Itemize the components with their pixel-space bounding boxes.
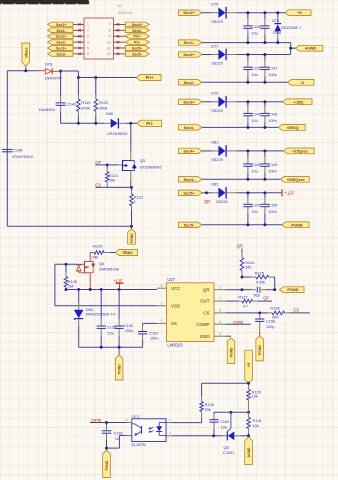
- port Sec1- (transformer left): [48, 28, 74, 33]
- svg-text:QR: QR: [204, 199, 210, 204]
- power +12F (VCC): [113, 278, 123, 289]
- svg-text:Sec3-: Sec3-: [56, 52, 66, 56]
- capacitor C155 100n: [260, 193, 277, 225]
- svg-text:+15Qsec: +15Qsec: [292, 149, 308, 153]
- svg-text:C136: C136: [251, 25, 260, 29]
- port Sec3+ (transformer left): [48, 46, 74, 51]
- junction: [118, 346, 121, 349]
- svg-text:VCC: VCC: [171, 286, 180, 291]
- diode D78 1N4007W: [39, 61, 62, 80]
- resistor R131 10k: [247, 412, 262, 436]
- svg-text:10k: 10k: [252, 394, 258, 399]
- resistor R125 9.35k: [242, 270, 275, 289]
- svg-text:200k: 200k: [81, 105, 89, 110]
- svg-text:100n: 100n: [268, 210, 276, 214]
- junction: [263, 11, 266, 14]
- svg-text:DMD6515E: DMD6515E: [99, 266, 120, 271]
- wire Sec3- rail: [202, 126, 278, 128]
- svg-text:C148: C148: [251, 163, 260, 167]
- wire COMP pin: [225, 323, 250, 325]
- resistor R127 4.7: [225, 295, 272, 309]
- wire PGND rail (mid): [79, 346, 143, 348]
- capacitor C145 100n: [260, 102, 277, 128]
- port Sec3+: [178, 99, 202, 104]
- wire Sec5- rail: [202, 224, 282, 226]
- wire comp row: [90, 422, 132, 424]
- svg-text:200k: 200k: [99, 105, 107, 110]
- port GNDQsec: [280, 176, 309, 182]
- junction: [246, 149, 249, 152]
- svg-text:100n: 100n: [268, 119, 276, 123]
- svg-text:D63: D63: [86, 307, 93, 312]
- svg-text:Sec3+: Sec3+: [183, 99, 195, 104]
- port PGND (QR): [279, 287, 304, 293]
- capacitor C134: [260, 13, 269, 43]
- svg-text:470uF/630V: 470uF/630V: [12, 154, 34, 159]
- wire main input: [7, 70, 39, 72]
- svg-text:C158: C158: [266, 320, 275, 324]
- junction: [205, 191, 208, 194]
- wire ref row: [214, 411, 249, 413]
- svg-text:Sec5+: Sec5+: [183, 190, 195, 195]
- svg-text:+12F: +12F: [113, 278, 123, 283]
- svg-text:OC1: OC1: [132, 414, 140, 419]
- junction: [77, 76, 80, 79]
- resistor R120 200k: [94, 78, 109, 124]
- svg-text:Sec5-: Sec5-: [132, 52, 142, 56]
- wire snubber bottom rail: [61, 122, 104, 124]
- port Sec1+: [178, 10, 202, 15]
- capacitor C160 100n: [115, 290, 134, 348]
- port Sec3- (transformer left): [48, 52, 74, 57]
- junction: [100, 288, 103, 291]
- svg-text:VBus: VBus: [23, 47, 28, 58]
- capacitor C163 1n: [102, 423, 123, 449]
- svg-text:+15Q: +15Q: [294, 99, 304, 104]
- junction: [106, 163, 109, 166]
- svg-text:D76: D76: [272, 19, 279, 23]
- diode D75 SS220: [202, 2, 285, 24]
- ground flag PGND (C158): [256, 336, 264, 361]
- junction: [105, 421, 108, 424]
- svg-text:7: 7: [109, 23, 111, 27]
- svg-text:10u: 10u: [251, 32, 257, 36]
- svg-text:9.35k: 9.35k: [256, 280, 266, 285]
- svg-text:SS220: SS220: [211, 108, 224, 113]
- svg-text:9: 9: [109, 35, 111, 39]
- svg-text:Sec2+: Sec2+: [56, 35, 67, 39]
- capacitor C154 10u: [243, 193, 260, 225]
- junction: [246, 11, 249, 14]
- port Sec4-: [178, 177, 202, 182]
- svg-text:Sec4+: Sec4+: [183, 148, 195, 153]
- svg-text:10u: 10u: [108, 332, 114, 336]
- svg-text:Sec2+: Sec2+: [183, 52, 195, 57]
- svg-text:8: 8: [109, 29, 111, 33]
- diode D80 US1K/800V: [104, 111, 137, 136]
- svg-text:CS: CS: [203, 311, 209, 316]
- svg-text:Sec1+: Sec1+: [56, 23, 67, 27]
- svg-text:C163: C163: [114, 431, 123, 435]
- junction: [89, 288, 92, 291]
- svg-text:C161: C161: [149, 332, 158, 336]
- svg-text:R125: R125: [255, 270, 264, 275]
- port Sec2- (transformer left): [48, 40, 74, 45]
- svg-text:GND: GND: [200, 334, 210, 339]
- capacitor C142 15n/630V: [39, 71, 77, 123]
- ground flag AGND (Q5): [245, 437, 253, 465]
- svg-text:7: 7: [219, 297, 221, 301]
- svg-text:D78: D78: [45, 61, 52, 66]
- svg-text:8: 8: [161, 284, 163, 288]
- port Sec5+: [178, 190, 202, 195]
- port Pri- (transformer right): [125, 40, 149, 45]
- junction: [246, 223, 249, 226]
- svg-text:3: 3: [87, 35, 89, 39]
- junction: [77, 288, 80, 291]
- port +15Q: [283, 99, 313, 105]
- svg-text:Q3: Q3: [140, 158, 145, 163]
- svg-text:Pri+: Pri+: [146, 75, 154, 80]
- svg-text:10k: 10k: [253, 423, 259, 428]
- capacitor C148 10u: [243, 151, 260, 179]
- svg-text:EL357N: EL357N: [132, 442, 146, 447]
- svg-text:D81: D81: [211, 140, 218, 145]
- svg-text:DDZ20BF-7: DDZ20BF-7: [281, 26, 301, 30]
- capacitor C146 470uF/630V: [2, 143, 33, 159]
- svg-text:10u: 10u: [251, 73, 257, 77]
- port Vbus: [115, 249, 137, 255]
- wire Sec2- rail: [202, 81, 287, 83]
- svg-text:1: 1: [87, 23, 89, 27]
- svg-text:PGND: PGND: [229, 347, 233, 357]
- svg-text:Sec5-: Sec5-: [184, 222, 195, 227]
- net flag Vbus (vertical): [22, 43, 30, 71]
- svg-text:PGND: PGND: [291, 222, 302, 227]
- svg-text:100n: 100n: [268, 73, 276, 77]
- port Sec3-: [178, 125, 202, 130]
- junction: [241, 276, 244, 279]
- port Sec5-: [178, 222, 202, 227]
- junction: [212, 434, 215, 437]
- zener D63 MMSZ5245BS-7-F: [74, 290, 117, 348]
- svg-text:4: 4: [87, 40, 89, 44]
- ground flag PGND (opto): [103, 448, 111, 477]
- diode D81 SS220: [202, 140, 283, 162]
- capacitor C159 10u: [97, 290, 116, 348]
- svg-text:33k: 33k: [205, 407, 211, 412]
- junction: [276, 41, 279, 44]
- port Sec1+ (transformer left): [48, 22, 74, 27]
- svg-text:OUT: OUT: [200, 299, 210, 304]
- power +12F (Sec5): [282, 189, 295, 196]
- port Sec2+ (transformer left): [48, 34, 74, 39]
- resistor R119 200k: [77, 78, 91, 124]
- svg-text:2: 2: [161, 302, 163, 306]
- svg-text:VSD: VSD: [171, 303, 180, 308]
- junction: [246, 41, 249, 44]
- svg-text:1: 1: [169, 418, 171, 422]
- junction: [229, 411, 232, 414]
- transformer #1 820/10/6: [73, 4, 132, 59]
- svg-text:Sec1-: Sec1-: [184, 40, 195, 45]
- ground flag PGND (mid): [115, 347, 123, 380]
- junction: [130, 186, 133, 189]
- svg-text:100n: 100n: [273, 31, 281, 35]
- svg-text:150n: 150n: [150, 337, 158, 341]
- optocoupler OC1 EL357N: [126, 414, 172, 447]
- svg-text:2: 2: [87, 29, 89, 33]
- junction: [263, 53, 266, 56]
- port PGND: [282, 222, 309, 228]
- svg-text:SS220: SS220: [216, 199, 229, 204]
- svg-text:Sec2-: Sec2-: [184, 80, 195, 85]
- svg-text:U27: U27: [167, 277, 175, 282]
- svg-text:C146: C146: [13, 148, 22, 153]
- svg-text:11: 11: [107, 46, 111, 50]
- junction: [263, 178, 266, 181]
- svg-text:10u: 10u: [251, 170, 257, 174]
- svg-text:10u: 10u: [251, 210, 257, 214]
- junction: [263, 81, 266, 84]
- svg-text:D77: D77: [211, 43, 218, 48]
- junction: [273, 288, 276, 291]
- svg-text:PGND: PGND: [118, 364, 122, 374]
- svg-text:5: 5: [87, 46, 89, 50]
- wire +5 rail: [202, 382, 249, 384]
- transistor Q4 DMD6515E: [76, 253, 119, 290]
- junction: [247, 382, 250, 385]
- port +5: [285, 10, 311, 16]
- resistor R129 10k: [247, 383, 261, 412]
- junction: [94, 122, 97, 125]
- port Pri+ (transformer right): [125, 34, 149, 39]
- junction: [263, 149, 266, 152]
- wire QR pin: [225, 289, 242, 291]
- svg-text:100p: 100p: [266, 325, 274, 329]
- svg-text:C145: C145: [268, 113, 277, 117]
- svg-text:100n: 100n: [268, 170, 276, 174]
- svg-text:5: 5: [219, 309, 221, 313]
- capacitor C149 100n: [260, 151, 277, 179]
- capacitor C137 100n: [260, 55, 277, 83]
- port Sec1-: [178, 40, 202, 45]
- svg-text:QR: QR: [237, 243, 243, 248]
- port Pri-: [137, 120, 162, 126]
- svg-text:D80: D80: [106, 111, 114, 116]
- junction: [247, 434, 250, 437]
- resistor R122 1: [130, 187, 143, 226]
- capacitor C161 150n: [138, 323, 158, 347]
- svg-text:SS220: SS220: [211, 61, 224, 66]
- svg-text:C149: C149: [268, 163, 277, 167]
- svg-text:Sec3+: Sec3+: [56, 47, 67, 51]
- junction: [263, 100, 266, 103]
- junction: [100, 346, 103, 349]
- wire VCC rail: [66, 289, 157, 291]
- svg-text:+12F: +12F: [285, 190, 295, 195]
- transistor Q5 CJ431: [166, 412, 249, 455]
- capacitor C162 10u: [209, 412, 229, 436]
- svg-text:LM5023: LM5023: [167, 343, 183, 348]
- svg-text:1: 1: [134, 199, 136, 204]
- junction: [65, 263, 68, 266]
- svg-text:R127: R127: [238, 295, 247, 300]
- top toolbar fragment: [0, 0, 88, 4]
- svg-text:Sec1+: Sec1+: [183, 10, 195, 15]
- svg-text:15n/630V: 15n/630V: [39, 107, 56, 112]
- svg-text:Pri-: Pri-: [134, 41, 141, 45]
- svg-text:C142: C142: [67, 101, 76, 106]
- ground flag PGND (GND pin): [225, 336, 235, 363]
- svg-text:C162: C162: [220, 420, 229, 424]
- junction: [105, 447, 108, 450]
- svg-text:Sec3-: Sec3-: [184, 125, 195, 130]
- svg-text:SS220: SS220: [211, 19, 224, 24]
- port +15Qsec: [283, 148, 314, 154]
- svg-text:AGND: AGND: [305, 46, 317, 51]
- resistor R121 10k: [105, 165, 118, 188]
- resistor R126 1M: [64, 264, 77, 289]
- diode D82 SS220: [202, 182, 282, 204]
- svg-text:COMP: COMP: [196, 322, 209, 327]
- svg-text:comp: comp: [91, 418, 102, 423]
- svg-text:Sec4+: Sec4+: [132, 23, 143, 27]
- resistor R124 32k: [240, 249, 255, 278]
- junction: [241, 288, 244, 291]
- junction node A: [59, 70, 62, 73]
- svg-text:4: 4: [219, 320, 221, 324]
- wire VSD loop: [54, 264, 56, 306]
- svg-text:QF: QF: [263, 295, 269, 300]
- svg-text:32k: 32k: [245, 264, 251, 269]
- zener D76 DDZ20BF-7: [272, 13, 301, 43]
- svg-text:D82: D82: [211, 182, 218, 187]
- wire SS: [143, 322, 157, 324]
- svg-text:QR: QR: [203, 287, 210, 292]
- svg-text:4: 4: [126, 418, 128, 422]
- junction: [263, 223, 266, 226]
- svg-text:#1: #1: [118, 4, 122, 8]
- svg-text:PGND: PGND: [105, 460, 109, 470]
- svg-text:US1K/800V: US1K/800V: [107, 131, 128, 136]
- svg-text:AGND: AGND: [247, 447, 251, 458]
- svg-text:C137: C137: [268, 66, 277, 70]
- junction: [289, 47, 292, 50]
- svg-text:PGND: PGND: [258, 345, 262, 355]
- svg-text:D79: D79: [211, 91, 218, 96]
- resistor R130 33k: [166, 383, 215, 422]
- wire left rail: [6, 71, 8, 227]
- junction: [276, 11, 279, 14]
- svg-text:D75: D75: [211, 2, 218, 7]
- port GNDQ: [278, 125, 305, 131]
- wire Q3 gate: [95, 164, 118, 166]
- svg-text:CS: CS: [293, 308, 299, 313]
- svg-text:2: 2: [169, 432, 171, 436]
- ground flag PGND (below R122): [128, 226, 136, 244]
- svg-text:Pri-: Pri-: [146, 121, 153, 126]
- junction: [246, 100, 249, 103]
- svg-text:100n: 100n: [125, 329, 133, 333]
- svg-text:GNDQsec: GNDQsec: [287, 178, 305, 182]
- junction: [246, 53, 249, 56]
- diode D79 SS220: [202, 91, 283, 113]
- wire CS pin: [225, 312, 267, 314]
- svg-text:Sec5+: Sec5+: [132, 47, 143, 51]
- svg-text:10u: 10u: [221, 426, 227, 430]
- wire to opto emitter: [107, 447, 120, 449]
- svg-text:Sec4-: Sec4-: [184, 177, 195, 182]
- svg-text:Sec1-: Sec1-: [56, 29, 66, 33]
- svg-text:C160: C160: [124, 324, 133, 328]
- svg-text:24k: 24k: [92, 254, 98, 259]
- svg-text:6: 6: [87, 52, 89, 56]
- port Sec5+ (transformer right): [125, 46, 149, 51]
- svg-text:1: 1: [219, 286, 221, 290]
- diode D77 SS220: [202, 43, 291, 65]
- svg-text:Sec4-: Sec4-: [132, 29, 142, 33]
- net flag +5 (vertical): [245, 350, 253, 383]
- svg-text:SS: SS: [171, 321, 177, 326]
- svg-text:6: 6: [219, 332, 221, 336]
- junction: [258, 311, 261, 314]
- wire Sec1- rail: [202, 42, 291, 44]
- svg-text:Sec2-: Sec2-: [56, 41, 66, 45]
- port Sec2+: [178, 52, 202, 57]
- port Sec2-: [178, 80, 202, 85]
- capacitor C135 10u: [243, 55, 260, 83]
- transistor Q3 STD5N80K5: [123, 123, 162, 187]
- junction: [77, 122, 80, 125]
- svg-text:PGND: PGND: [130, 233, 134, 243]
- svg-text:C154: C154: [251, 204, 260, 208]
- wire to snubber top: [61, 70, 79, 72]
- svg-text:C155: C155: [268, 204, 277, 208]
- capacitor C144 10u: [243, 102, 260, 128]
- resistor R128 500: [268, 306, 311, 320]
- junction: [130, 225, 133, 228]
- wire Sec4- rail: [202, 178, 280, 180]
- wire AGND link: [290, 43, 292, 55]
- port -5: [287, 79, 314, 85]
- svg-text:Pri+: Pri+: [134, 35, 141, 39]
- svg-text:C135: C135: [251, 66, 260, 70]
- resistor R123 24k: [90, 244, 115, 260]
- junction: [129, 122, 132, 125]
- svg-text:SS220: SS220: [211, 157, 224, 162]
- svg-text:R123: R123: [93, 244, 102, 249]
- junction: [246, 178, 249, 181]
- svg-text:4.7: 4.7: [243, 304, 248, 309]
- svg-text:STD5N80K5: STD5N80K5: [140, 165, 162, 170]
- junction: [246, 191, 249, 194]
- svg-text:QF: QF: [95, 160, 101, 165]
- capacitor C136 10u: [243, 13, 260, 43]
- port Sec4+: [178, 148, 202, 153]
- junction: [247, 411, 250, 414]
- wire CS row: [95, 186, 131, 188]
- svg-text:PGND: PGND: [287, 287, 298, 292]
- svg-text:10: 10: [107, 40, 111, 44]
- svg-text:820/10/6: 820/10/6: [118, 11, 132, 15]
- port Sec5- (transformer right): [125, 52, 149, 57]
- capacitor 56p: [242, 287, 275, 298]
- junction: [263, 41, 266, 44]
- svg-text:10k: 10k: [109, 177, 115, 182]
- port Sec4- (transformer right): [125, 28, 149, 33]
- port AGND: [295, 45, 323, 51]
